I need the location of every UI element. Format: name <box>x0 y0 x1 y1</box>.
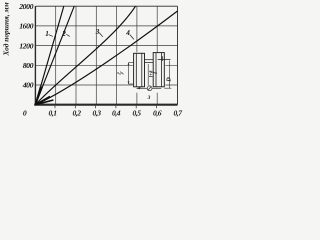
inset drawing: double cylinder sketch <box>116 52 172 101</box>
svg-text:1600: 1600 <box>19 22 33 31</box>
bottom line with circle <box>137 86 162 91</box>
svg-text:3: 3 <box>95 28 100 36</box>
svg-text:0,1: 0,1 <box>49 108 58 117</box>
middle gap dimension and rotated labels <box>147 64 149 86</box>
svg-text:1: 1 <box>45 30 49 38</box>
svg-text:0,3: 0,3 <box>93 108 102 117</box>
svg-text:1200: 1200 <box>19 41 33 50</box>
svg-text:3: 3 <box>147 95 151 101</box>
svg-text:D: D <box>166 77 172 83</box>
curve labels with leader ticks <box>45 28 130 38</box>
svg-text:2000: 2000 <box>18 2 33 11</box>
grid verticals <box>56 6 158 105</box>
frame <box>34 6 177 105</box>
connectors between blocks <box>145 60 171 63</box>
data lines radiating from origin <box>35 6 177 105</box>
white fill blocks <box>134 53 145 87</box>
right dimension D <box>164 61 171 89</box>
svg-text:0,4: 0,4 <box>112 108 121 117</box>
svg-text:s,|s,: s,|s, <box>116 70 124 75</box>
left dimension line S <box>129 63 134 85</box>
svg-text:4: 4 <box>125 29 130 37</box>
svg-text:0,5: 0,5 <box>133 108 142 117</box>
grid horizontals <box>35 26 177 85</box>
bold segments near origin (scan ink pooling) <box>35 87 53 105</box>
svg-text:2: 2 <box>61 30 66 38</box>
small dimension arrow on top of right block <box>161 56 163 61</box>
axis labels <box>18 2 33 90</box>
svg-text:800: 800 <box>23 61 34 70</box>
svg-text:400: 400 <box>22 81 34 90</box>
svg-text:0,6: 0,6 <box>153 108 162 117</box>
paper background <box>0 0 185 121</box>
inner wall lines <box>136 53 161 87</box>
svg-text:Ход поршня, мм: Ход поршня, мм <box>1 2 10 56</box>
svg-text:0,2: 0,2 <box>73 108 82 117</box>
x ticks below axis <box>55 106 157 109</box>
